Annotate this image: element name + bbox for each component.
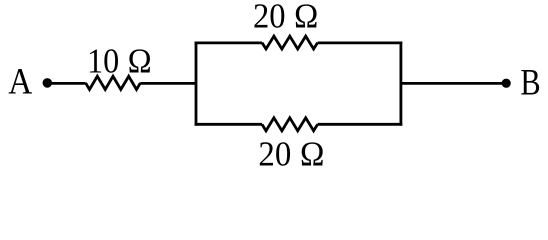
resistor R2 20 ohm (top branch)	[262, 36, 318, 49]
wire box bottom-right segment	[318, 123, 403, 126]
svg-text:20 Ω: 20 Ω	[253, 0, 319, 36]
node B terminal dot	[502, 79, 511, 88]
wire A-dot to R1	[47, 82, 85, 85]
wire box right to B-dot	[401, 82, 506, 85]
wire box bottom-left segment	[195, 123, 262, 126]
svg-text:A: A	[8, 61, 33, 102]
node A terminal dot	[43, 78, 53, 88]
wire box left vertical	[195, 42, 198, 126]
svg-text:20 Ω: 20 Ω	[258, 136, 324, 172]
svg-text:10 Ω: 10 Ω	[87, 42, 152, 81]
resistor R1 10 ohm	[86, 76, 141, 89]
label 10 Ω	[87, 42, 152, 81]
wire R1 to box left	[140, 82, 196, 85]
wire box right vertical	[399, 42, 402, 126]
svg-text:B: B	[520, 63, 540, 103]
wire box top-right segment	[318, 42, 403, 45]
node B label	[520, 63, 540, 103]
wire box top-left segment	[195, 42, 262, 45]
node A label	[8, 61, 33, 102]
resistor R3 20 ohm (bottom branch)	[262, 118, 318, 131]
label 20 Ω (bottom)	[258, 136, 324, 174]
label 20 Ω (top)	[253, 0, 319, 36]
